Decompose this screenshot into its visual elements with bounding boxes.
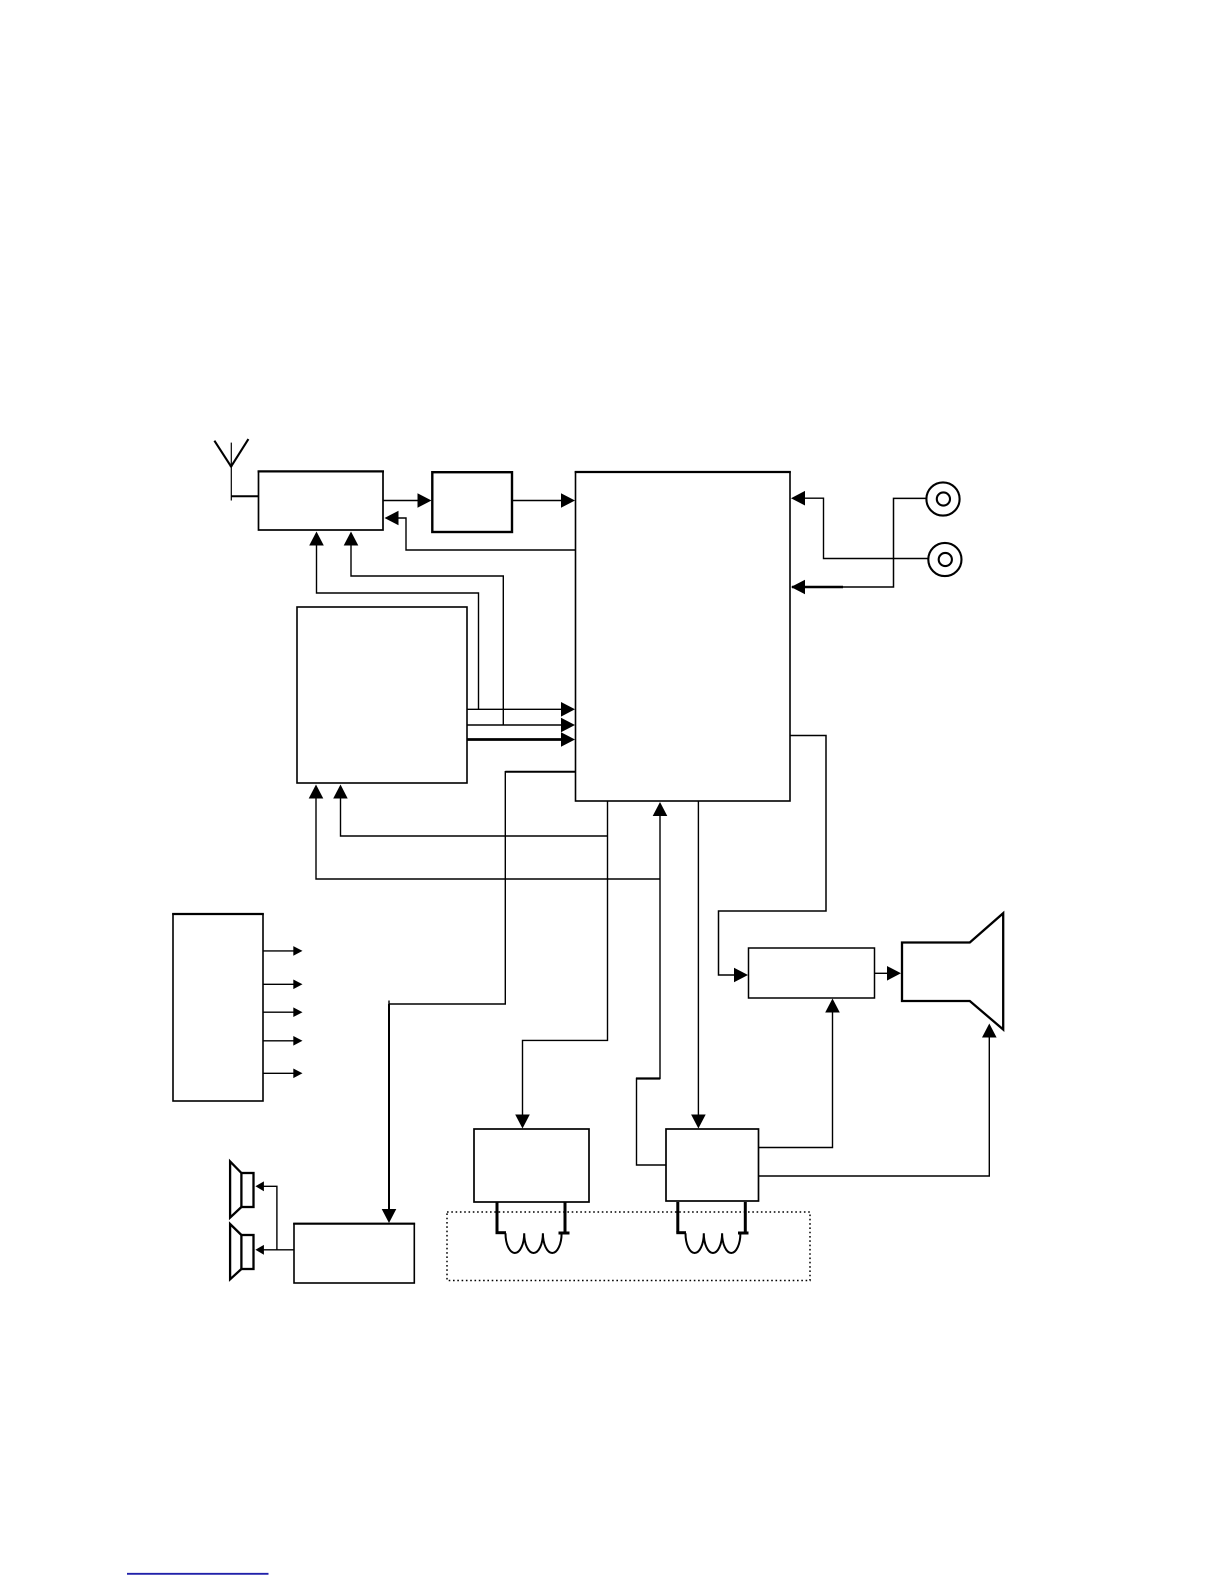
wire jack J2 to main IC upper input bbox=[791, 491, 928, 559]
wire key line 5 bbox=[263, 1069, 303, 1079]
wire main IC feedback to tuner bbox=[385, 511, 576, 550]
wire IF amp to main IC bbox=[512, 493, 575, 508]
transformer block T2 bbox=[666, 1129, 759, 1201]
wire main IC to MCU status line 2 bbox=[333, 785, 607, 837]
wire jack J1 to main IC lower input bbox=[791, 498, 926, 594]
headphone amp block bbox=[293, 1224, 415, 1283]
wire tuning line 1 to tuner bottom bbox=[309, 532, 478, 710]
dotted output stage enclosure bbox=[447, 1212, 810, 1281]
horn speaker SP3 bbox=[902, 913, 1003, 1029]
wire transformer block T2 to audio amp bbox=[759, 999, 840, 1148]
transformer block T1 bbox=[474, 1129, 589, 1202]
wire MCU data line to main IC bbox=[467, 702, 575, 717]
wire main IC to audio amp bbox=[719, 736, 827, 983]
wire MCU bus line to main IC (bold) bbox=[467, 732, 575, 747]
wire headphone amp to speaker SP2 bbox=[255, 1245, 294, 1255]
phono jack J1 bbox=[926, 482, 959, 515]
wire main IC to MCU status line 1 bbox=[309, 785, 660, 880]
wire key line 3 bbox=[263, 1007, 303, 1017]
wire MCU clock line to main IC bbox=[467, 718, 575, 733]
RF tuner block bbox=[258, 471, 384, 530]
main IC block bbox=[575, 472, 791, 801]
wire branch to speaker SP1 bbox=[255, 1181, 277, 1249]
wire tuning line 2 to tuner bottom bbox=[344, 532, 504, 726]
IF amp block bbox=[432, 472, 512, 532]
speaker SP2 bbox=[230, 1224, 253, 1279]
wire main IC to headphone amp (bold) bbox=[382, 771, 576, 1223]
antenna ANT1 bbox=[214, 439, 248, 500]
footer link underline bbox=[127, 1573, 269, 1575]
coil T2 bbox=[676, 1202, 748, 1253]
wire audio amp to horn speaker bbox=[875, 966, 902, 981]
wire transformer T2 to main IC bottom bbox=[636, 802, 667, 1165]
key matrix block bbox=[172, 914, 264, 1101]
wire transformer block T2 to horn speaker bbox=[759, 1024, 997, 1177]
wire key line 1 bbox=[263, 946, 303, 956]
audio power amp block bbox=[749, 948, 875, 998]
wire antenna feed bbox=[231, 495, 258, 497]
system control MCU block bbox=[297, 607, 467, 783]
speaker SP1 bbox=[230, 1161, 253, 1217]
wire main IC to transformer block T2 bbox=[691, 801, 706, 1129]
wire main IC to transformer block T1 bbox=[515, 801, 607, 1129]
wire key line 2 bbox=[263, 980, 303, 990]
phono jack J2 bbox=[928, 543, 961, 576]
wire tuner to IF amp bbox=[383, 493, 432, 508]
wire key line 4 bbox=[263, 1036, 303, 1046]
coil T1 bbox=[496, 1202, 570, 1253]
